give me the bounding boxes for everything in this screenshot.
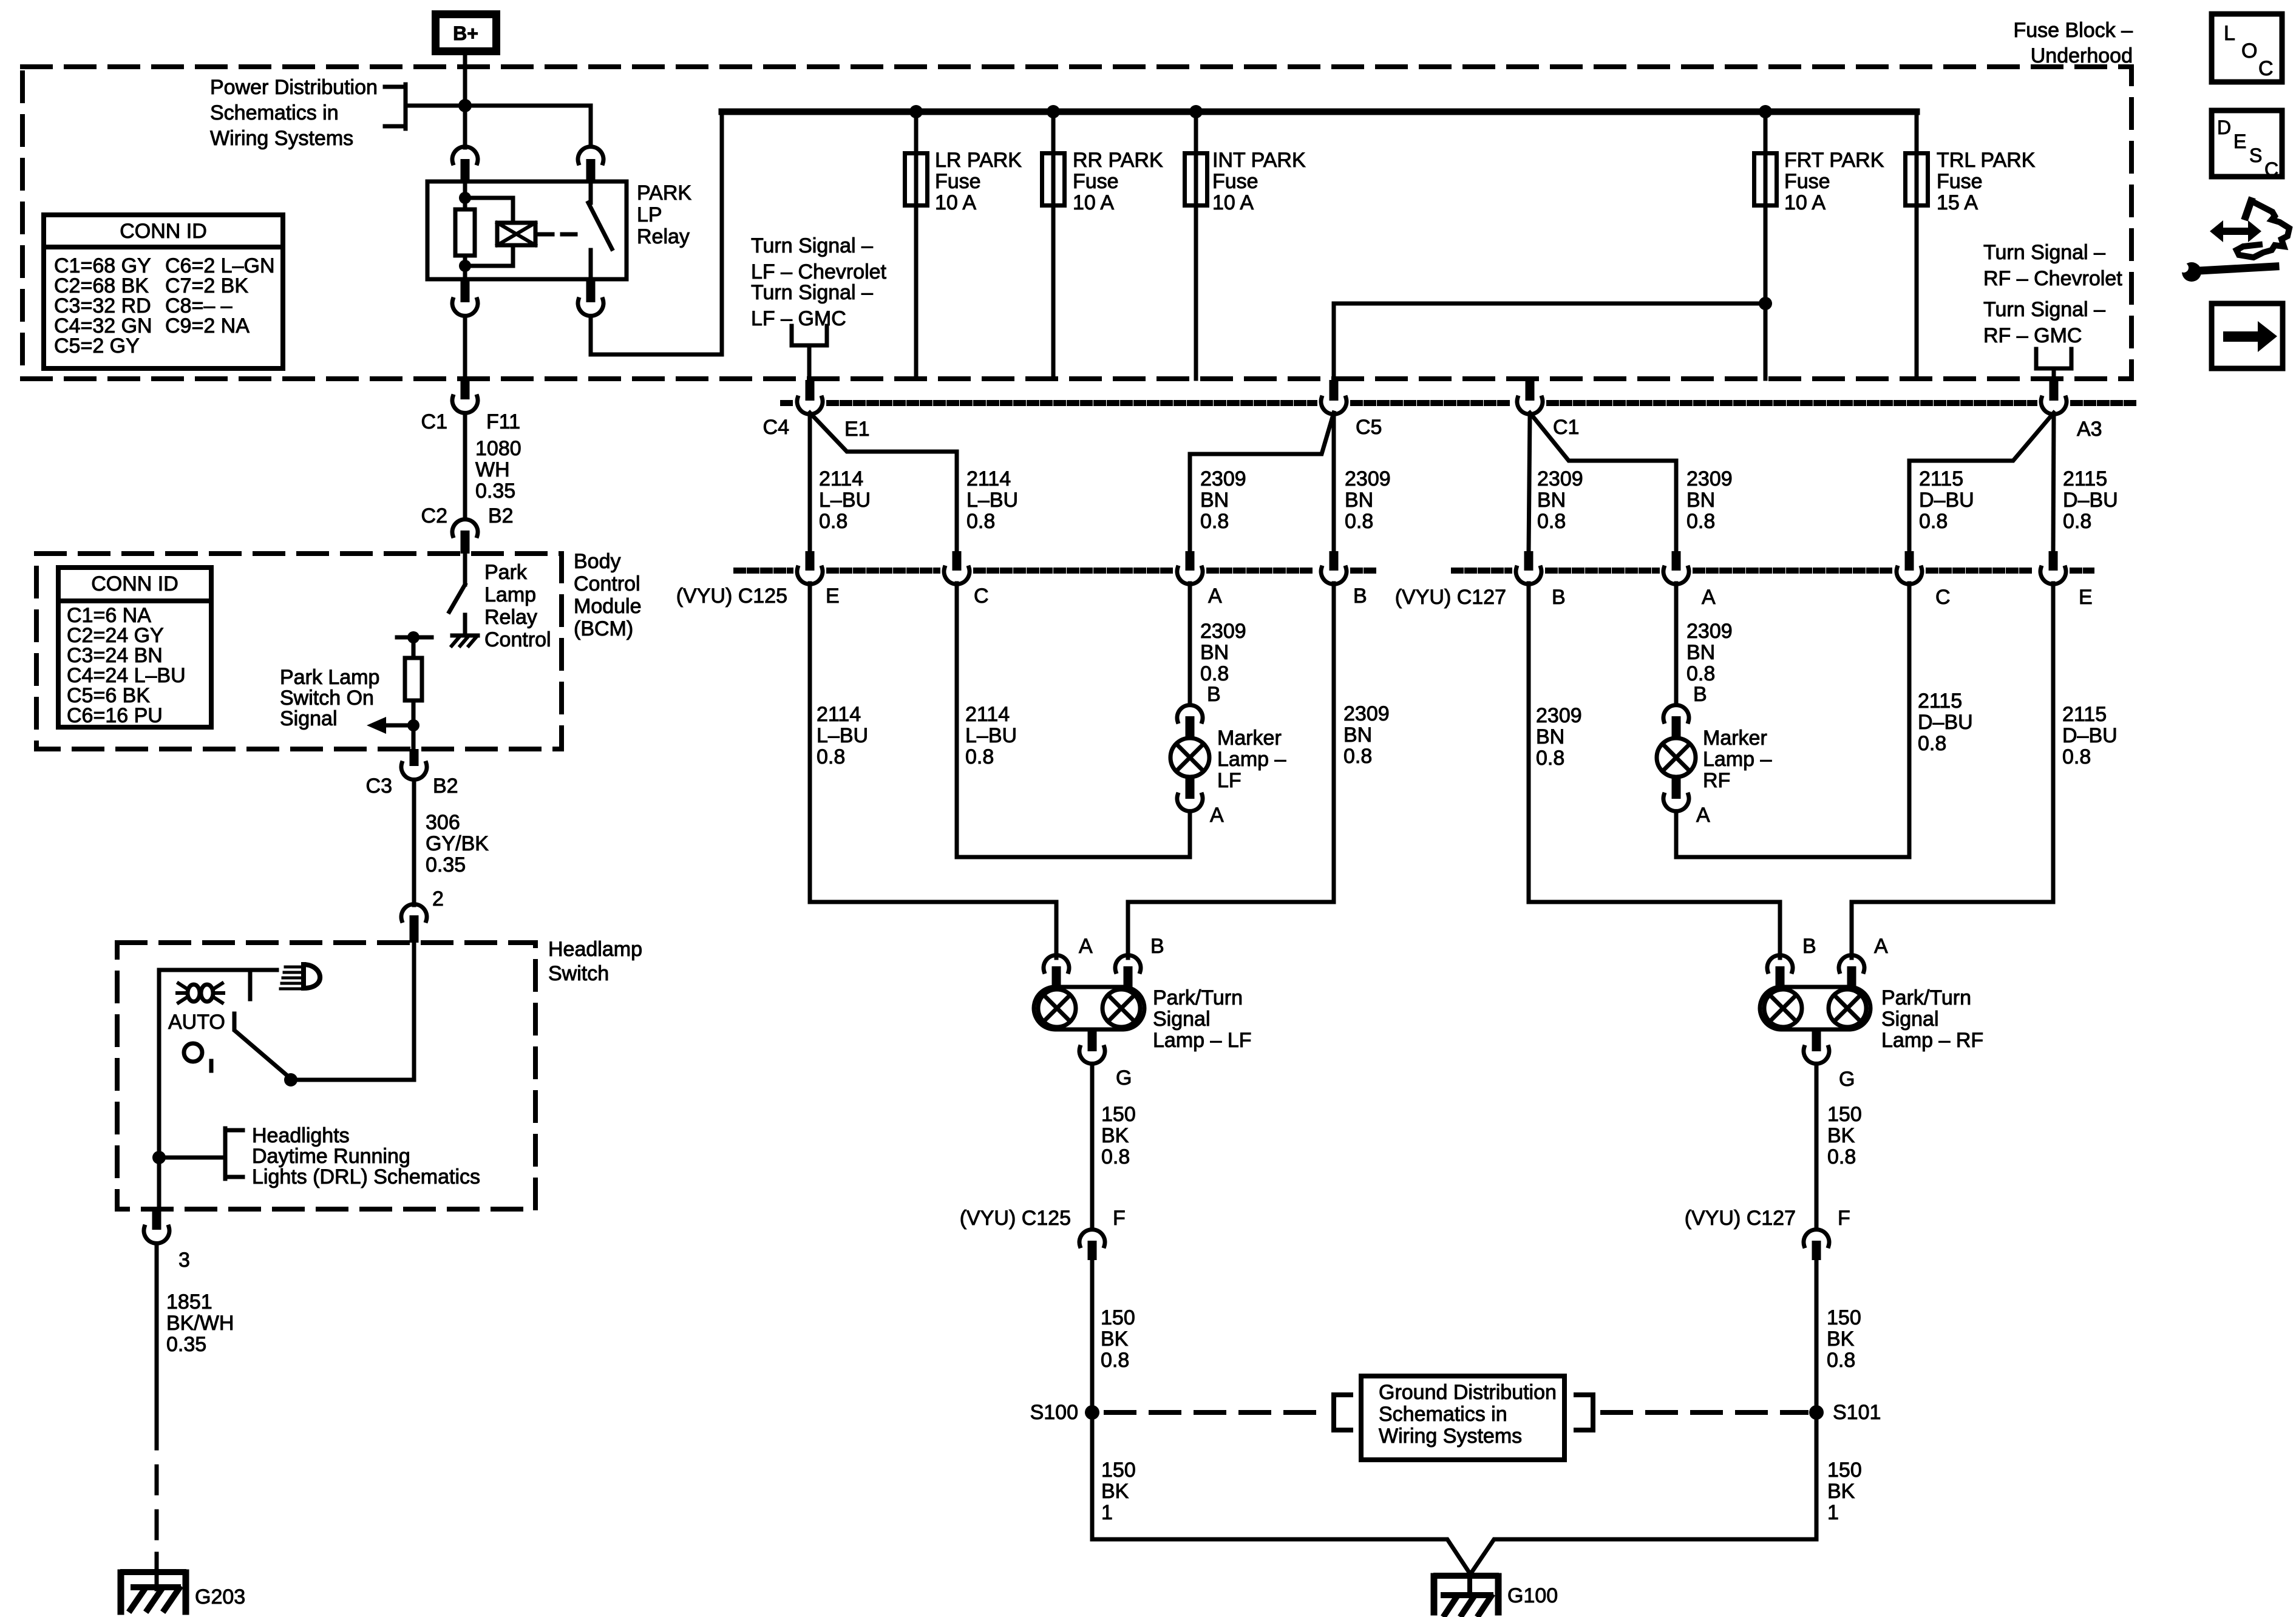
parking lamp icon [188, 985, 200, 1002]
svg-text:A: A [1874, 935, 1888, 958]
svg-text:B2: B2 [433, 775, 458, 798]
svg-text:Control: Control [484, 628, 551, 651]
dashed wire to G203 [155, 1422, 159, 1572]
svg-text:2309: 2309 [1537, 467, 1583, 490]
headlight icon [304, 964, 320, 988]
wire B+ down [463, 55, 467, 147]
svg-text:0.8: 0.8 [1200, 662, 1229, 685]
svg-text:C2: C2 [421, 504, 447, 527]
connector pin C5 [1330, 380, 1339, 401]
off position marker [184, 1043, 202, 1062]
svg-text:0.8: 0.8 [1918, 732, 1946, 755]
svg-text:BN: BN [1345, 489, 1373, 512]
svg-text:Fuse: Fuse [935, 170, 981, 193]
svg-text:E: E [2079, 586, 2093, 609]
svg-text:A: A [1079, 935, 1093, 958]
connector pin C4 [806, 380, 815, 401]
svg-text:(VYU) C127: (VYU) C127 [1395, 586, 1506, 609]
wire A3 to E column right [2053, 415, 2054, 552]
connector C127 F [1804, 1230, 1829, 1246]
svg-text:0.35: 0.35 [426, 853, 466, 876]
svg-text:F11: F11 [486, 410, 520, 433]
svg-text:150: 150 [1101, 1459, 1136, 1482]
svg-text:Turn Signal –: Turn Signal – [751, 281, 873, 304]
connector row C125 dotted [736, 568, 790, 574]
headlight position contact [248, 972, 253, 999]
icon box arrow [2212, 303, 2283, 368]
svg-text:0.8: 0.8 [966, 510, 995, 533]
marker lamp LF [1177, 705, 1203, 722]
svg-text:TRL PARK: TRL PARK [1937, 149, 2036, 172]
svg-text:Signal: Signal [1153, 1008, 1211, 1031]
svg-text:Daytime Running: Daytime Running [252, 1145, 410, 1168]
svg-text:Park/Turn: Park/Turn [1881, 986, 1971, 1009]
fuse INT PARK [1194, 114, 1198, 379]
svg-text:Lamp –: Lamp – [1703, 748, 1771, 771]
svg-text:F: F [1838, 1207, 1850, 1230]
svg-text:FRT PARK: FRT PARK [1784, 149, 1884, 172]
svg-text:BN: BN [1686, 489, 1715, 512]
svg-text:D–BU: D–BU [1919, 489, 1974, 512]
connector C3 B2 inline [410, 749, 419, 766]
svg-text:2114: 2114 [819, 467, 863, 490]
svg-text:10 A: 10 A [1212, 191, 1254, 214]
svg-text:Relay: Relay [637, 225, 690, 248]
svg-text:CONN ID: CONN ID [120, 220, 207, 243]
svg-text:Control: Control [574, 572, 640, 595]
connector pin 3 [152, 1209, 161, 1230]
node junction bus at fuse x1735 [1047, 105, 1060, 118]
svg-text:2309: 2309 [1343, 702, 1390, 725]
ground G203 [123, 1569, 183, 1575]
dashed splice links to ground distribution [1106, 1410, 1330, 1415]
headlamp switch internals [412, 943, 416, 1080]
connector pin A row2 x1960 [1186, 551, 1195, 571]
node junction bus at fuse x2908 [1759, 105, 1772, 118]
svg-text:3: 3 [178, 1249, 190, 1272]
svg-text:INT PARK: INT PARK [1212, 149, 1306, 172]
junction to DRL [152, 1151, 166, 1164]
svg-text:Headlamp: Headlamp [548, 938, 642, 961]
fuse LR PARK [914, 114, 919, 379]
relay switch contact [589, 181, 593, 203]
svg-text:PARK: PARK [637, 181, 691, 205]
node junction bus at fuse x1509 [909, 105, 923, 118]
relay coil branch [463, 181, 467, 279]
svg-text:2309: 2309 [1200, 467, 1246, 490]
svg-text:Fuse: Fuse [1212, 170, 1258, 193]
svg-text:0.8: 0.8 [1686, 662, 1715, 685]
bus feed to fuses [722, 109, 1917, 115]
svg-text:Fuse Block –: Fuse Block – [2013, 19, 2133, 42]
icon box DESC [2212, 110, 2282, 177]
svg-text:BK: BK [1827, 1480, 1855, 1503]
svg-text:C6=16 PU: C6=16 PU [67, 704, 163, 727]
svg-text:10 A: 10 A [935, 191, 976, 214]
relay coil top pin [452, 147, 478, 163]
svg-text:0.8: 0.8 [1827, 1145, 1856, 1168]
wire C5 to B column [1332, 415, 1336, 552]
connector pin C row2 x3145 [1905, 551, 1914, 571]
relay switch top pin [578, 147, 603, 163]
pin feed bars left lamp [810, 902, 1056, 958]
svg-text:S: S [2249, 144, 2262, 166]
svg-text:1: 1 [1827, 1501, 1839, 1524]
connector pin B row2 x2197 [1330, 551, 1339, 571]
svg-text:2309: 2309 [1536, 704, 1582, 727]
svg-text:BK: BK [1827, 1327, 1855, 1351]
svg-text:A: A [1208, 585, 1222, 608]
svg-text:BN: BN [1200, 489, 1229, 512]
connector pin 2 headlamp switch [401, 904, 427, 921]
svg-text:Fuse: Fuse [1073, 170, 1119, 193]
svg-text:G: G [1839, 1068, 1855, 1091]
svg-text:Lamp –: Lamp – [1217, 748, 1286, 771]
svg-text:LR PARK: LR PARK [935, 149, 1022, 172]
svg-text:10 A: 10 A [1073, 191, 1114, 214]
relay coil bottom pin [461, 279, 470, 302]
svg-text:Lamp – LF: Lamp – LF [1153, 1029, 1252, 1052]
svg-text:S100: S100 [1030, 1401, 1078, 1424]
bracket right of ground distribution box [1576, 1395, 1593, 1430]
svg-text:L: L [2224, 22, 2235, 45]
svg-text:GY/BK: GY/BK [426, 832, 489, 855]
connector row C200 dotted line [783, 400, 790, 406]
connector pin C1 [1526, 380, 1535, 401]
svg-text:WH: WH [475, 458, 510, 481]
svg-text:AUTO: AUTO [168, 1011, 225, 1034]
svg-text:0.8: 0.8 [1101, 1349, 1129, 1372]
connector C125 F [1079, 1230, 1105, 1246]
BCM dashed box [36, 554, 562, 749]
wire 306 GY/BK [412, 781, 416, 905]
connector pin E row2 x1334 [806, 551, 815, 571]
linkage dashed [539, 232, 584, 237]
svg-text:B: B [1207, 683, 1221, 706]
svg-text:C9=2 NA: C9=2 NA [165, 314, 250, 337]
svg-text:A: A [1702, 586, 1716, 609]
svg-text:C5=2 GY: C5=2 GY [54, 334, 140, 358]
svg-text:2115: 2115 [1918, 690, 1962, 713]
svg-text:C: C [2264, 158, 2278, 180]
wire C4 diagonal to E1 [810, 413, 957, 552]
svg-text:CONN ID: CONN ID [91, 572, 178, 595]
marker lamp RF [1663, 705, 1689, 722]
svg-text:A: A [1210, 804, 1224, 827]
svg-text:BN: BN [1686, 641, 1715, 664]
svg-text:0.8: 0.8 [1827, 1349, 1855, 1372]
svg-text:150: 150 [1101, 1103, 1136, 1126]
svg-text:Relay: Relay [484, 606, 537, 629]
ground G100 [1467, 1573, 1472, 1595]
fuse block underhood dashed box [22, 67, 2131, 379]
svg-text:0.8: 0.8 [1345, 510, 1373, 533]
svg-text:A3: A3 [2077, 418, 2102, 441]
node junction bus at fuse x1970 [1189, 105, 1203, 118]
svg-text:O: O [2241, 39, 2257, 63]
svg-text:L–BU: L–BU [965, 724, 1017, 747]
wire F to S101 [1815, 1260, 1819, 1539]
wire 1851 BK/WH [155, 1244, 159, 1422]
DRL bracket [223, 1128, 228, 1179]
svg-text:BN: BN [1536, 725, 1564, 748]
connector pin C row2 x1576 [953, 551, 962, 571]
connector C1 F11 inline [461, 379, 470, 399]
wire FRT PARK fuse output split [1334, 302, 1765, 306]
icon box LOC [2212, 14, 2282, 82]
svg-text:2114: 2114 [965, 703, 1010, 726]
svg-text:0.8: 0.8 [2063, 510, 2091, 533]
svg-text:0.8: 0.8 [819, 510, 847, 533]
svg-text:Switch: Switch [548, 962, 609, 985]
svg-text:LF: LF [1217, 769, 1241, 792]
relay switch bottom pin [586, 279, 596, 302]
svg-text:0.8: 0.8 [2062, 745, 2091, 768]
svg-text:150: 150 [1827, 1459, 1862, 1482]
arrow park lamp switch on signal [385, 724, 413, 728]
wire 1080 WH [463, 413, 467, 519]
svg-text:Lamp – RF: Lamp – RF [1881, 1029, 1983, 1052]
svg-text:0.35: 0.35 [475, 480, 515, 503]
pin feed bars right lamp [1529, 902, 1780, 958]
svg-text:D–BU: D–BU [2063, 489, 2118, 512]
svg-text:150: 150 [1827, 1103, 1862, 1126]
svg-text:2309: 2309 [1686, 467, 1733, 490]
svg-text:Lamp: Lamp [484, 583, 536, 606]
svg-text:Marker: Marker [1217, 727, 1282, 750]
svg-text:BN: BN [1200, 641, 1229, 664]
svg-text:Signal: Signal [1881, 1008, 1939, 1031]
icon vehicle wrench [2246, 201, 2251, 217]
CONN ID table fuse block [44, 215, 283, 368]
svg-text:S101: S101 [1833, 1401, 1881, 1424]
wire C5 diagonal to A column [1190, 413, 1334, 552]
svg-text:0.8: 0.8 [817, 745, 845, 768]
svg-text:2115: 2115 [2062, 703, 2107, 726]
svg-text:Park/Turn: Park/Turn [1153, 986, 1243, 1009]
splice S101 [1809, 1405, 1824, 1420]
svg-text:RF – GMC: RF – GMC [1983, 324, 2082, 347]
wire to pin 3 [157, 1158, 161, 1209]
BCM park lamp relay control switch [463, 554, 467, 585]
svg-text:D–BU: D–BU [1918, 711, 1973, 734]
svg-text:B: B [1693, 683, 1707, 706]
svg-text:B: B [1802, 935, 1816, 958]
svg-text:RF – Chevrolet: RF – Chevrolet [1983, 267, 2122, 290]
svg-text:D–BU: D–BU [2062, 724, 2118, 747]
svg-text:0.8: 0.8 [1536, 747, 1564, 770]
svg-text:Underhood: Underhood [2031, 44, 2133, 67]
svg-text:E: E [826, 585, 840, 608]
svg-text:Schematics in: Schematics in [210, 101, 339, 124]
svg-text:(VYU) C125: (VYU) C125 [960, 1207, 1071, 1230]
connector pin E row2 x3382 [2049, 551, 2058, 571]
svg-text:15 A: 15 A [1937, 191, 1978, 214]
svg-text:BK/WH: BK/WH [166, 1312, 234, 1335]
svg-text:Headlights: Headlights [252, 1124, 350, 1147]
svg-text:G203: G203 [195, 1585, 245, 1609]
svg-text:Turn Signal –: Turn Signal – [1983, 241, 2105, 264]
svg-text:C3: C3 [366, 775, 392, 798]
wire S101 to G100 [1471, 1420, 1816, 1573]
bracket for power distribution [404, 84, 408, 129]
connector C2 B2 inline [452, 520, 478, 536]
svg-text:LF – Chevrolet: LF – Chevrolet [751, 260, 887, 283]
svg-text:Module: Module [574, 595, 642, 618]
ground distribution schematics box [1361, 1376, 1564, 1460]
wire C1 diagonal to A column right [1530, 413, 1676, 552]
svg-text:L–BU: L–BU [819, 489, 871, 512]
splice S100 [1085, 1405, 1099, 1420]
svg-text:Wiring Systems: Wiring Systems [1379, 1425, 1522, 1448]
fuse FRT PARK [1764, 114, 1768, 379]
svg-text:C5: C5 [1356, 416, 1382, 439]
resistor in relay [455, 209, 475, 256]
columns below row2 left [808, 583, 812, 902]
svg-text:C1: C1 [1553, 416, 1579, 439]
svg-text:BN: BN [1537, 489, 1566, 512]
svg-text:150: 150 [1827, 1306, 1861, 1329]
BCM internal ground [452, 634, 478, 638]
svg-text:2309: 2309 [1200, 620, 1246, 643]
svg-text:L–BU: L–BU [966, 489, 1018, 512]
connector row C127 dotted [1454, 568, 1509, 574]
svg-text:Power Distribution: Power Distribution [210, 76, 378, 99]
svg-text:2: 2 [432, 887, 444, 910]
svg-text:0.8: 0.8 [1686, 510, 1715, 533]
svg-text:(VYU) C125: (VYU) C125 [676, 585, 787, 608]
wire A3 diagonal to C column right [1909, 413, 2054, 552]
svg-text:1851: 1851 [166, 1290, 212, 1314]
lamp RF ground pin G [1812, 1029, 1821, 1051]
svg-text:G: G [1116, 1066, 1132, 1090]
connector pin B row2 x2518 [1524, 551, 1533, 571]
svg-text:1: 1 [1101, 1501, 1113, 1524]
connector pin A row2 x2761 [1672, 551, 1681, 571]
svg-text:C: C [1935, 586, 1951, 609]
battery B+ terminal [436, 15, 497, 52]
park/turn signal lamp LF [1044, 955, 1069, 972]
wire C1 to B column right [1529, 415, 1530, 552]
svg-text:RR PARK: RR PARK [1073, 149, 1163, 172]
svg-text:306: 306 [426, 811, 460, 834]
svg-text:E1: E1 [844, 418, 870, 441]
svg-text:Fuse: Fuse [1784, 170, 1830, 193]
bracket turn signal LF feed [792, 326, 827, 345]
headlamp switch dashed box [117, 943, 535, 1209]
svg-text:C: C [974, 585, 989, 608]
svg-text:2309: 2309 [1345, 467, 1391, 490]
svg-text:Wiring Systems: Wiring Systems [210, 127, 353, 150]
svg-text:B: B [1353, 585, 1367, 608]
lamp LF ground pin G [1088, 1029, 1097, 1051]
wire C4 to E column [808, 415, 812, 552]
svg-text:Schematics in: Schematics in [1379, 1403, 1507, 1426]
svg-text:B+: B+ [453, 22, 478, 44]
svg-text:C1: C1 [421, 410, 447, 433]
svg-text:2114: 2114 [966, 467, 1011, 490]
svg-text:Marker: Marker [1703, 727, 1767, 750]
fuse TRL PARK [1915, 114, 1919, 379]
svg-text:0.8: 0.8 [1101, 1145, 1130, 1168]
svg-text:2309: 2309 [1686, 620, 1733, 643]
BCM park lamp switch-on signal driver [397, 636, 432, 640]
svg-text:F: F [1113, 1207, 1126, 1230]
bracket left of ground distribution box [1334, 1395, 1351, 1430]
svg-text:B: B [1552, 586, 1566, 609]
inner bar left C to marker A [957, 855, 1190, 859]
svg-text:0.8: 0.8 [1919, 510, 1948, 533]
svg-text:Park Lamp: Park Lamp [280, 666, 379, 689]
svg-text:BK: BK [1101, 1124, 1129, 1147]
svg-text:BK: BK [1101, 1327, 1129, 1351]
svg-text:RF: RF [1703, 769, 1730, 792]
svg-text:(BCM): (BCM) [574, 617, 633, 640]
svg-text:BK: BK [1827, 1124, 1855, 1147]
resistor BCM [405, 658, 422, 700]
svg-text:D: D [2217, 117, 2231, 138]
bracket turn signal RF feed [2036, 349, 2071, 368]
columns below row2 right [1527, 583, 1531, 902]
svg-text:LP: LP [637, 203, 662, 226]
coil solenoid box [497, 223, 535, 245]
node junction B+ [458, 99, 472, 112]
svg-text:(VYU) C127: (VYU) C127 [1685, 1207, 1796, 1230]
wire marker RF lower [1674, 812, 1679, 857]
wire junction to relay switch [468, 106, 591, 146]
svg-text:Turn Signal –: Turn Signal – [1983, 298, 2105, 321]
park/turn signal lamp RF [1767, 955, 1793, 972]
svg-text:Lights (DRL) Schematics: Lights (DRL) Schematics [252, 1165, 480, 1188]
svg-text:BN: BN [1343, 724, 1372, 747]
svg-text:Turn Signal –: Turn Signal – [751, 234, 873, 257]
svg-text:E: E [2233, 131, 2246, 152]
svg-text:Park: Park [484, 561, 528, 584]
svg-text:0.35: 0.35 [166, 1333, 206, 1356]
svg-text:Ground Distribution: Ground Distribution [1379, 1381, 1557, 1404]
relay PARK LP box [427, 181, 627, 279]
wire G RF down [1815, 1064, 1819, 1229]
svg-text:0.8: 0.8 [965, 745, 994, 768]
svg-text:10 A: 10 A [1784, 191, 1826, 214]
svg-text:C: C [2258, 57, 2274, 80]
svg-text:C4: C4 [763, 416, 789, 439]
svg-text:Signal: Signal [280, 707, 338, 730]
svg-text:2114: 2114 [817, 703, 861, 726]
svg-text:G100: G100 [1507, 1584, 1558, 1607]
connector pin A3 [2050, 380, 2059, 401]
svg-text:0.8: 0.8 [1343, 745, 1372, 768]
wire relay switch output to bus riser [591, 112, 722, 354]
svg-text:B2: B2 [488, 504, 514, 527]
svg-text:LF – GMC: LF – GMC [751, 307, 846, 330]
wire F to S100 [1090, 1260, 1095, 1539]
svg-text:L–BU: L–BU [817, 724, 868, 747]
svg-text:Switch On: Switch On [280, 686, 374, 710]
fuse RR PARK [1051, 114, 1056, 379]
wire S100 to G100 [1092, 1420, 1470, 1573]
svg-text:Body: Body [574, 550, 621, 573]
CONN ID table BCM [58, 568, 211, 727]
svg-text:B: B [1150, 935, 1164, 958]
svg-text:2115: 2115 [2063, 467, 2107, 490]
svg-text:BK: BK [1101, 1480, 1129, 1503]
svg-text:2115: 2115 [1919, 467, 1963, 490]
svg-text:A: A [1696, 804, 1710, 827]
wire relay coil to C1 connector [463, 316, 467, 379]
svg-text:Fuse: Fuse [1937, 170, 1983, 193]
wire G LF down [1090, 1064, 1095, 1229]
